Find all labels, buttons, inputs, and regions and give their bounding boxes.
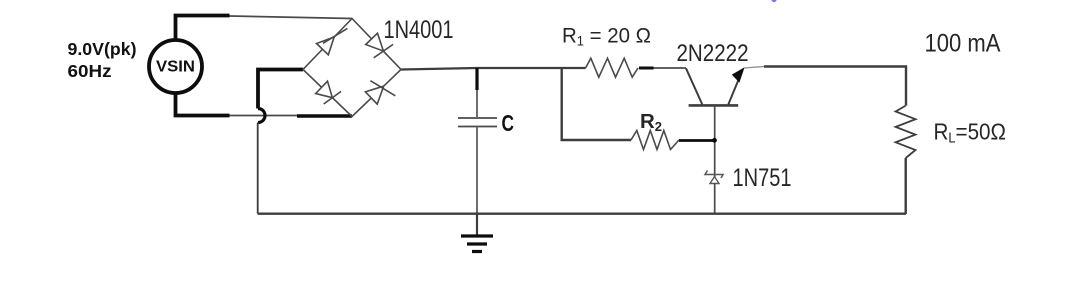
svg-text:VSIN: VSIN [156,59,195,76]
svg-text:100 mA: 100 mA [925,30,1001,58]
svg-text:RL=50Ω: RL=50Ω [934,118,1007,146]
svg-text:1N751: 1N751 [733,164,792,192]
svg-text:9.0V(pk): 9.0V(pk) [68,39,137,59]
svg-text:60Hz: 60Hz [68,61,112,81]
svg-text:R1 = 20 Ω: R1 = 20 Ω [562,24,651,49]
svg-text:C: C [502,110,515,136]
svg-text:2N2222: 2N2222 [677,40,749,67]
svg-text:1N4001: 1N4001 [384,16,454,44]
svg-text:R2: R2 [640,110,662,134]
